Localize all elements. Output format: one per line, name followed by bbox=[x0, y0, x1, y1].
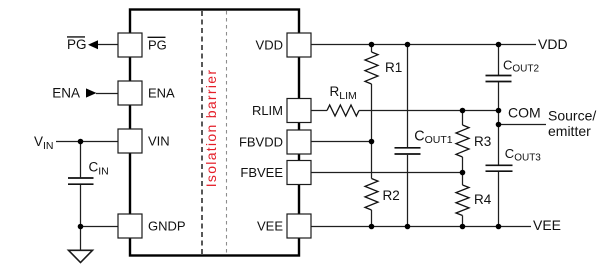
pin ENA bbox=[118, 81, 142, 105]
pin VIN bbox=[118, 129, 142, 153]
wire VIN bbox=[56, 141, 118, 143]
arrow PG output bbox=[88, 40, 98, 49]
svg-text:Source/: Source/ bbox=[548, 107, 596, 123]
node VDD-COUT2 bbox=[496, 42, 502, 48]
wire source emitter stub bbox=[499, 124, 547, 126]
svg-text:R1: R1 bbox=[385, 60, 402, 75]
wire COUT3 top lead bbox=[498, 125, 500, 165]
svg-text:R4: R4 bbox=[474, 192, 492, 207]
wire COUT3 bottom lead bbox=[498, 172, 500, 227]
wire CIN bottom lead bbox=[80, 185, 82, 227]
node GNDP junction bbox=[78, 224, 84, 230]
wire R2 bottom lead bbox=[371, 210, 373, 227]
svg-text:emitter: emitter bbox=[548, 123, 591, 139]
svg-text:R2: R2 bbox=[383, 188, 400, 203]
pin VEE bbox=[287, 214, 311, 238]
pin PG bbox=[118, 33, 142, 57]
pin VDD bbox=[287, 33, 311, 57]
svg-text:RLIM: RLIM bbox=[252, 103, 283, 118]
pin FBVDD bbox=[287, 130, 311, 154]
svg-text:ENA: ENA bbox=[148, 86, 175, 101]
overline pin PG bbox=[148, 36, 166, 38]
wire FBVEE bbox=[311, 172, 463, 174]
ground bbox=[69, 250, 93, 262]
node COM-source bbox=[496, 122, 502, 128]
wire COUT2 bottom to COM bbox=[498, 82, 500, 125]
node VEE-COUT1 bbox=[405, 224, 411, 230]
resistor R1 bbox=[365, 52, 378, 84]
wire COUT2 top lead bbox=[498, 45, 500, 76]
isolation barrier dashed line right bbox=[226, 11, 228, 254]
node VDD-R1 bbox=[369, 42, 375, 48]
node VIN junction bbox=[78, 139, 84, 145]
node FBVDD-R1R2 bbox=[369, 139, 375, 145]
node COM-COUT2 bbox=[496, 108, 502, 114]
svg-text:VIN: VIN bbox=[148, 134, 170, 149]
wire COUT1 top lead bbox=[407, 45, 409, 148]
resistor R4 bbox=[456, 185, 469, 216]
wire R4 leads bbox=[462, 173, 464, 186]
svg-text:COM: COM bbox=[508, 105, 541, 121]
capacitor COUT2 bbox=[486, 76, 512, 82]
node VEE-COUT3 bbox=[496, 224, 502, 230]
svg-text:VDD: VDD bbox=[256, 38, 283, 53]
wire GNDP bbox=[81, 226, 119, 228]
overline PG external bbox=[67, 36, 85, 38]
pin RLIM bbox=[287, 99, 311, 123]
svg-text:VDD: VDD bbox=[538, 36, 568, 52]
wire RLIM to COM bbox=[359, 110, 499, 112]
svg-text:ENA: ENA bbox=[52, 86, 80, 101]
wire RLIM left lead bbox=[311, 110, 327, 112]
svg-text:PG: PG bbox=[67, 37, 87, 52]
resistor R2 bbox=[365, 179, 378, 211]
svg-text:GNDP: GNDP bbox=[148, 219, 186, 234]
capacitor CIN bbox=[68, 178, 94, 184]
node COM-R3 bbox=[460, 108, 466, 114]
wire VDD rail bbox=[311, 44, 536, 46]
wire CIN top lead bbox=[80, 142, 82, 178]
isolation barrier dashed line left bbox=[201, 11, 203, 254]
pin FBVEE bbox=[287, 161, 311, 185]
node VEE-R4 bbox=[460, 224, 466, 230]
wire ENA bbox=[96, 93, 118, 95]
svg-text:FBVEE: FBVEE bbox=[240, 165, 283, 180]
svg-text:Isolation barrier: Isolation barrier bbox=[203, 69, 219, 188]
capacitor COUT1 bbox=[395, 148, 421, 154]
svg-text:VEE: VEE bbox=[257, 219, 283, 234]
wire R1 bottom to FBVDD node bbox=[371, 84, 373, 179]
IC body U1 bbox=[130, 10, 299, 256]
node VEE-R2 bbox=[369, 224, 375, 230]
node VDD-COUT1 bbox=[405, 42, 411, 48]
arrow ENA input bbox=[86, 88, 97, 97]
resistor RLIM bbox=[327, 105, 359, 116]
svg-text:R3: R3 bbox=[474, 134, 491, 149]
resistor R3 bbox=[456, 125, 469, 157]
capacitor COUT3 bbox=[486, 165, 513, 171]
svg-text:PG: PG bbox=[148, 38, 167, 53]
wire PG bbox=[97, 44, 118, 46]
node FBVEE-R3R4 bbox=[460, 170, 466, 176]
wire R1 top lead bbox=[371, 45, 373, 53]
wire R3 top lead bbox=[462, 111, 464, 126]
wire FBVDD bbox=[311, 141, 372, 143]
wire VEE rail bbox=[311, 226, 531, 228]
svg-text:VEE: VEE bbox=[533, 217, 561, 233]
svg-text:FBVDD: FBVDD bbox=[239, 135, 283, 150]
wire ground lead bbox=[80, 227, 82, 251]
wire R3 bottom lead bbox=[462, 157, 464, 173]
pin GNDP bbox=[118, 214, 142, 238]
wire COUT1 bottom lead bbox=[407, 155, 409, 227]
